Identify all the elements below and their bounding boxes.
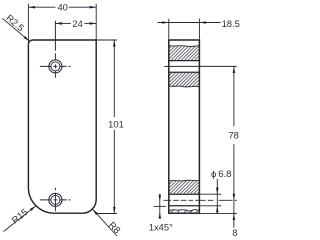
hole2 dashed centerline [163,199,237,201]
R8 leader [93,209,117,236]
side body outline [169,40,200,213]
svg-text:101: 101 [108,118,124,129]
svg-text:18.5: 18.5 [222,18,240,29]
top hole outer circle [49,60,62,73]
dim 40 extension line left [27,4,29,42]
dim 101 line [113,40,115,214]
R2.5 leader [2,18,29,41]
svg-text:R8: R8 [107,219,123,235]
dim 78 arrows [233,66,236,73]
hole2 top line [169,193,199,195]
R15 leader [4,206,36,232]
dim phi6.8 arrows (outside) [216,188,219,195]
dim 1x45 vertical line [159,194,161,218]
svg-text:40: 40 [57,2,67,13]
dim 18.5 extension lines [169,19,200,40]
bottom hole vertical centerline [54,188,56,212]
bottom hatch band [170,180,199,193]
svg-text:8: 8 [232,227,237,238]
dim 8 arrow [233,213,236,220]
dim 1x45 arrows [159,195,162,202]
dim phi6.8 vertical line [216,179,218,213]
hole1 bottom line [169,71,199,73]
side bottom edge right extension (8 dim) [200,212,237,214]
wavy bottom boundary of top hatch [170,86,199,87]
dim 101 bottom extension line [95,213,117,215]
dim 24 line [55,22,96,24]
top hole inner circle [51,62,60,71]
bottom wavy chamfer line [169,210,199,212]
hole2 top line right extension [199,193,221,195]
svg-text:R15: R15 [9,206,29,225]
hole2 bottom line right extension [199,205,221,207]
hole2 bottom line left extension (1x45) [154,205,166,207]
top break line [169,45,199,48]
svg-text:24: 24 [72,18,82,29]
svg-text:R2.5: R2.5 [4,12,26,33]
dim 40 arrows [28,6,35,9]
svg-text:78: 78 [228,130,238,141]
top hatch lower band with wavy bottom [170,73,199,87]
hole1 top line [169,60,199,62]
dim 18.5 line [158,22,221,24]
svg-text:1x45°: 1x45° [149,222,173,233]
bottom hole horizontal centerline [40,199,71,201]
dim 78 line [233,66,235,200]
dim 40 line [28,6,96,8]
bottom break line [170,179,199,182]
dim 101 top extension line [96,39,117,41]
dim 40/24 extension line right [95,4,97,40]
hole2 bottom line [169,205,199,207]
top hole vertical centerline / extension to 24 dim [54,21,56,78]
top hole horizontal centerline [40,65,71,67]
bottom hole inner circle [51,195,60,204]
top hatch upper band [170,46,199,60]
bottom hole outer circle [49,193,62,206]
dim 101 arrows [113,40,116,47]
dim 24 arrows [55,22,62,25]
svg-text:ϕ 6.8: ϕ 6.8 [211,169,231,180]
dim 18.5 arrows (outside) [162,21,169,24]
plate outline [28,40,96,213]
bottom sliver hatch ticks [171,209,198,212]
dim 8 line [233,200,235,227]
hole1 centerline (extends to 78 dim) [164,65,236,67]
